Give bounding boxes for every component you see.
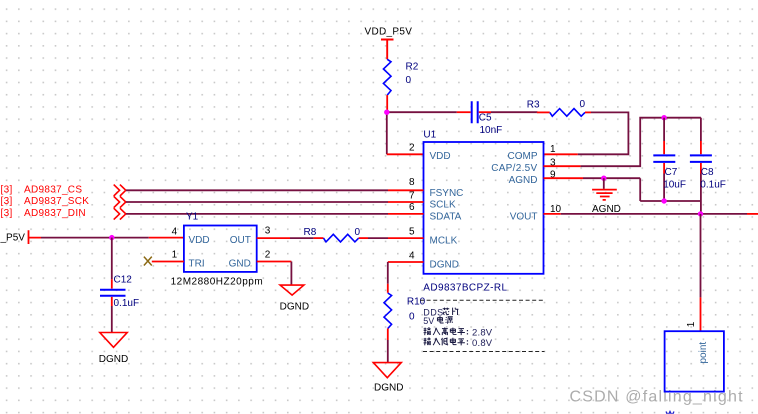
resistor R10 bbox=[384, 293, 426, 329]
Y1 pin numbers bbox=[172, 226, 271, 261]
svg-text:2: 2 bbox=[409, 143, 415, 154]
U1 pin 10 stub bbox=[544, 213, 561, 215]
svg-text:FSYNC: FSYNC bbox=[430, 188, 464, 199]
svg-text:10uF: 10uF bbox=[663, 180, 686, 191]
svg-text:4: 4 bbox=[172, 227, 178, 238]
capacitor C7 bbox=[653, 118, 686, 201]
svg-text:AD9837BCPZ-RL: AD9837BCPZ-RL bbox=[423, 283, 507, 294]
svg-text:0.8V: 0.8V bbox=[472, 338, 493, 349]
wire DGND pin down bbox=[387, 262, 389, 284]
ground AGND bbox=[592, 178, 621, 215]
svg-text:0.1uF: 0.1uF bbox=[700, 180, 726, 191]
wire R3 to pin 1 COMP bbox=[585, 111, 591, 113]
wire junction down to U1 VDD pin 2 bbox=[386, 112, 388, 154]
svg-text:SCLK: SCLK bbox=[430, 200, 456, 211]
pin 2 stub bbox=[387, 153, 424, 155]
junction node bbox=[601, 176, 606, 181]
wire pin 9 to rail bbox=[583, 177, 640, 179]
svg-text:C7: C7 bbox=[665, 167, 678, 178]
svg-text:8: 8 bbox=[409, 177, 415, 188]
U1 pin names bbox=[430, 151, 538, 270]
svg-text:C12: C12 bbox=[114, 274, 133, 285]
svg-text:3: 3 bbox=[265, 226, 271, 237]
wire R8 to MCLK bbox=[359, 237, 368, 239]
note block dashed border bbox=[420, 300, 545, 351]
wire VOUT net bbox=[561, 213, 747, 215]
wire port to Y1 VDD bbox=[41, 237, 149, 239]
svg-text:1: 1 bbox=[686, 321, 697, 327]
svg-text:0: 0 bbox=[580, 99, 586, 110]
wire CS to FSYNC bbox=[126, 189, 388, 191]
svg-text:4: 4 bbox=[409, 250, 415, 261]
ground DGND (R10) bbox=[373, 363, 403, 394]
port _P5V bbox=[0, 230, 41, 244]
wire junction to C5 bbox=[387, 111, 457, 113]
svg-text:R8: R8 bbox=[304, 227, 317, 238]
svg-text:DGND: DGND bbox=[99, 354, 128, 365]
wire DIN to SDATA bbox=[126, 213, 388, 215]
svg-text:SDATA: SDATA bbox=[430, 211, 462, 222]
svg-text:[3]: [3] bbox=[1, 185, 13, 196]
no-connect X on Y1 TRI bbox=[144, 257, 152, 266]
capacitor C8 bbox=[690, 118, 726, 201]
watermark fragment bottom bbox=[666, 412, 674, 414]
sheet-entry chevrons CS bbox=[114, 185, 126, 220]
svg-text:2: 2 bbox=[265, 249, 271, 260]
svg-text:AD9837_DIN: AD9837_DIN bbox=[24, 208, 86, 219]
connector point body bbox=[665, 331, 724, 391]
Y1 pin 1 stub bbox=[152, 261, 184, 263]
op-amp U1 AD9837BCPZ-RL body bbox=[423, 129, 543, 293]
svg-text:5V: 5V bbox=[423, 316, 434, 326]
wire VOUT down to point bbox=[700, 214, 702, 298]
svg-text:R2: R2 bbox=[406, 61, 419, 72]
svg-text:VDD: VDD bbox=[430, 151, 451, 162]
svg-text:0: 0 bbox=[355, 227, 361, 238]
svg-text:0.1uF: 0.1uF bbox=[114, 298, 140, 309]
pin 1 stub bbox=[544, 153, 578, 155]
wire R10 to ground bbox=[387, 329, 389, 341]
point pin 1 stub bbox=[700, 297, 702, 331]
svg-text:7: 7 bbox=[409, 190, 415, 201]
svg-text:_P5V: _P5V bbox=[0, 233, 25, 244]
svg-text:MCLK: MCLK bbox=[430, 236, 458, 247]
svg-text:U1: U1 bbox=[423, 129, 436, 140]
resistor R2 bbox=[383, 59, 418, 95]
Y1 OUT stub bbox=[257, 237, 290, 239]
junction node bbox=[109, 235, 114, 240]
svg-text:0: 0 bbox=[409, 312, 415, 323]
U1 pin numbers bbox=[409, 143, 562, 262]
svg-text:DGND: DGND bbox=[430, 259, 459, 270]
svg-text:6: 6 bbox=[409, 202, 415, 213]
crystal Y1 body bbox=[171, 212, 264, 288]
svg-text:0: 0 bbox=[406, 75, 412, 86]
svg-text:AGND: AGND bbox=[509, 175, 538, 186]
wire R2 to junction bbox=[386, 95, 388, 112]
svg-text:VDD_P5V: VDD_P5V bbox=[365, 27, 413, 38]
capacitor C12 bbox=[100, 274, 139, 309]
ground DGND (Y1) bbox=[280, 285, 309, 312]
U1 pin 9 stub bbox=[544, 177, 584, 179]
svg-text:10nF: 10nF bbox=[480, 125, 503, 136]
resistor R3 bbox=[527, 99, 586, 116]
svg-text:AD9837_CS: AD9837_CS bbox=[24, 185, 82, 196]
wire pin 3 to cap rail bbox=[581, 118, 701, 167]
ground DGND (C12) bbox=[99, 333, 128, 366]
resistor R8 bbox=[304, 227, 361, 242]
Y1 pin 4 stub bbox=[149, 237, 184, 239]
junction node bbox=[661, 115, 666, 120]
svg-text:VOUT: VOUT bbox=[510, 211, 538, 222]
svg-text:DGND: DGND bbox=[374, 383, 403, 394]
U1 pin 3 stub bbox=[544, 165, 581, 167]
net label AD9837_CS bbox=[1, 185, 90, 220]
junction node bbox=[698, 211, 703, 216]
svg-text:CAP/2.5V: CAP/2.5V bbox=[491, 163, 537, 174]
svg-text:TRI: TRI bbox=[189, 259, 205, 270]
wire C8 rail to VOUT bbox=[700, 201, 702, 214]
Y1 GND wire to DGND bbox=[257, 261, 292, 263]
svg-text:C8: C8 bbox=[701, 167, 714, 178]
wire C12 to ground bbox=[111, 297, 113, 306]
svg-text:C5: C5 bbox=[479, 113, 492, 124]
U1 pin 4 stub bbox=[388, 261, 424, 263]
bottom cap rail bbox=[640, 178, 701, 201]
wire SCK to SCLK bbox=[126, 201, 388, 203]
svg-text:AD9837_SCK: AD9837_SCK bbox=[24, 196, 89, 207]
junction node bbox=[661, 198, 666, 203]
svg-text:[3]: [3] bbox=[1, 196, 13, 207]
svg-text:Y1: Y1 bbox=[186, 212, 199, 223]
svg-text:R3: R3 bbox=[527, 100, 540, 111]
wire junction to C12 bbox=[111, 238, 113, 280]
svg-text:1: 1 bbox=[172, 249, 178, 260]
svg-text:1: 1 bbox=[550, 144, 556, 155]
U1 pin 5 stub bbox=[388, 237, 424, 239]
svg-text:[3]: [3] bbox=[1, 208, 13, 219]
svg-text:R10: R10 bbox=[407, 297, 426, 308]
svg-text:12M2880HZ20ppm: 12M2880HZ20ppm bbox=[171, 277, 264, 288]
svg-text:COMP: COMP bbox=[508, 151, 538, 162]
capacitor C5 bbox=[472, 101, 503, 136]
Y1 pin names bbox=[189, 235, 251, 270]
svg-text:VDD: VDD bbox=[189, 235, 210, 246]
svg-text:DGND: DGND bbox=[280, 302, 309, 313]
wire C5 to R3 bbox=[479, 111, 491, 113]
wire OUT to R8 bbox=[290, 237, 314, 239]
svg-text:OUT: OUT bbox=[230, 235, 251, 246]
power symbol VDD_P5V bbox=[365, 27, 413, 60]
svg-text:5: 5 bbox=[409, 227, 415, 238]
svg-text:GND: GND bbox=[229, 259, 251, 270]
junction node bbox=[384, 110, 389, 115]
svg-text:point: point bbox=[698, 342, 709, 364]
